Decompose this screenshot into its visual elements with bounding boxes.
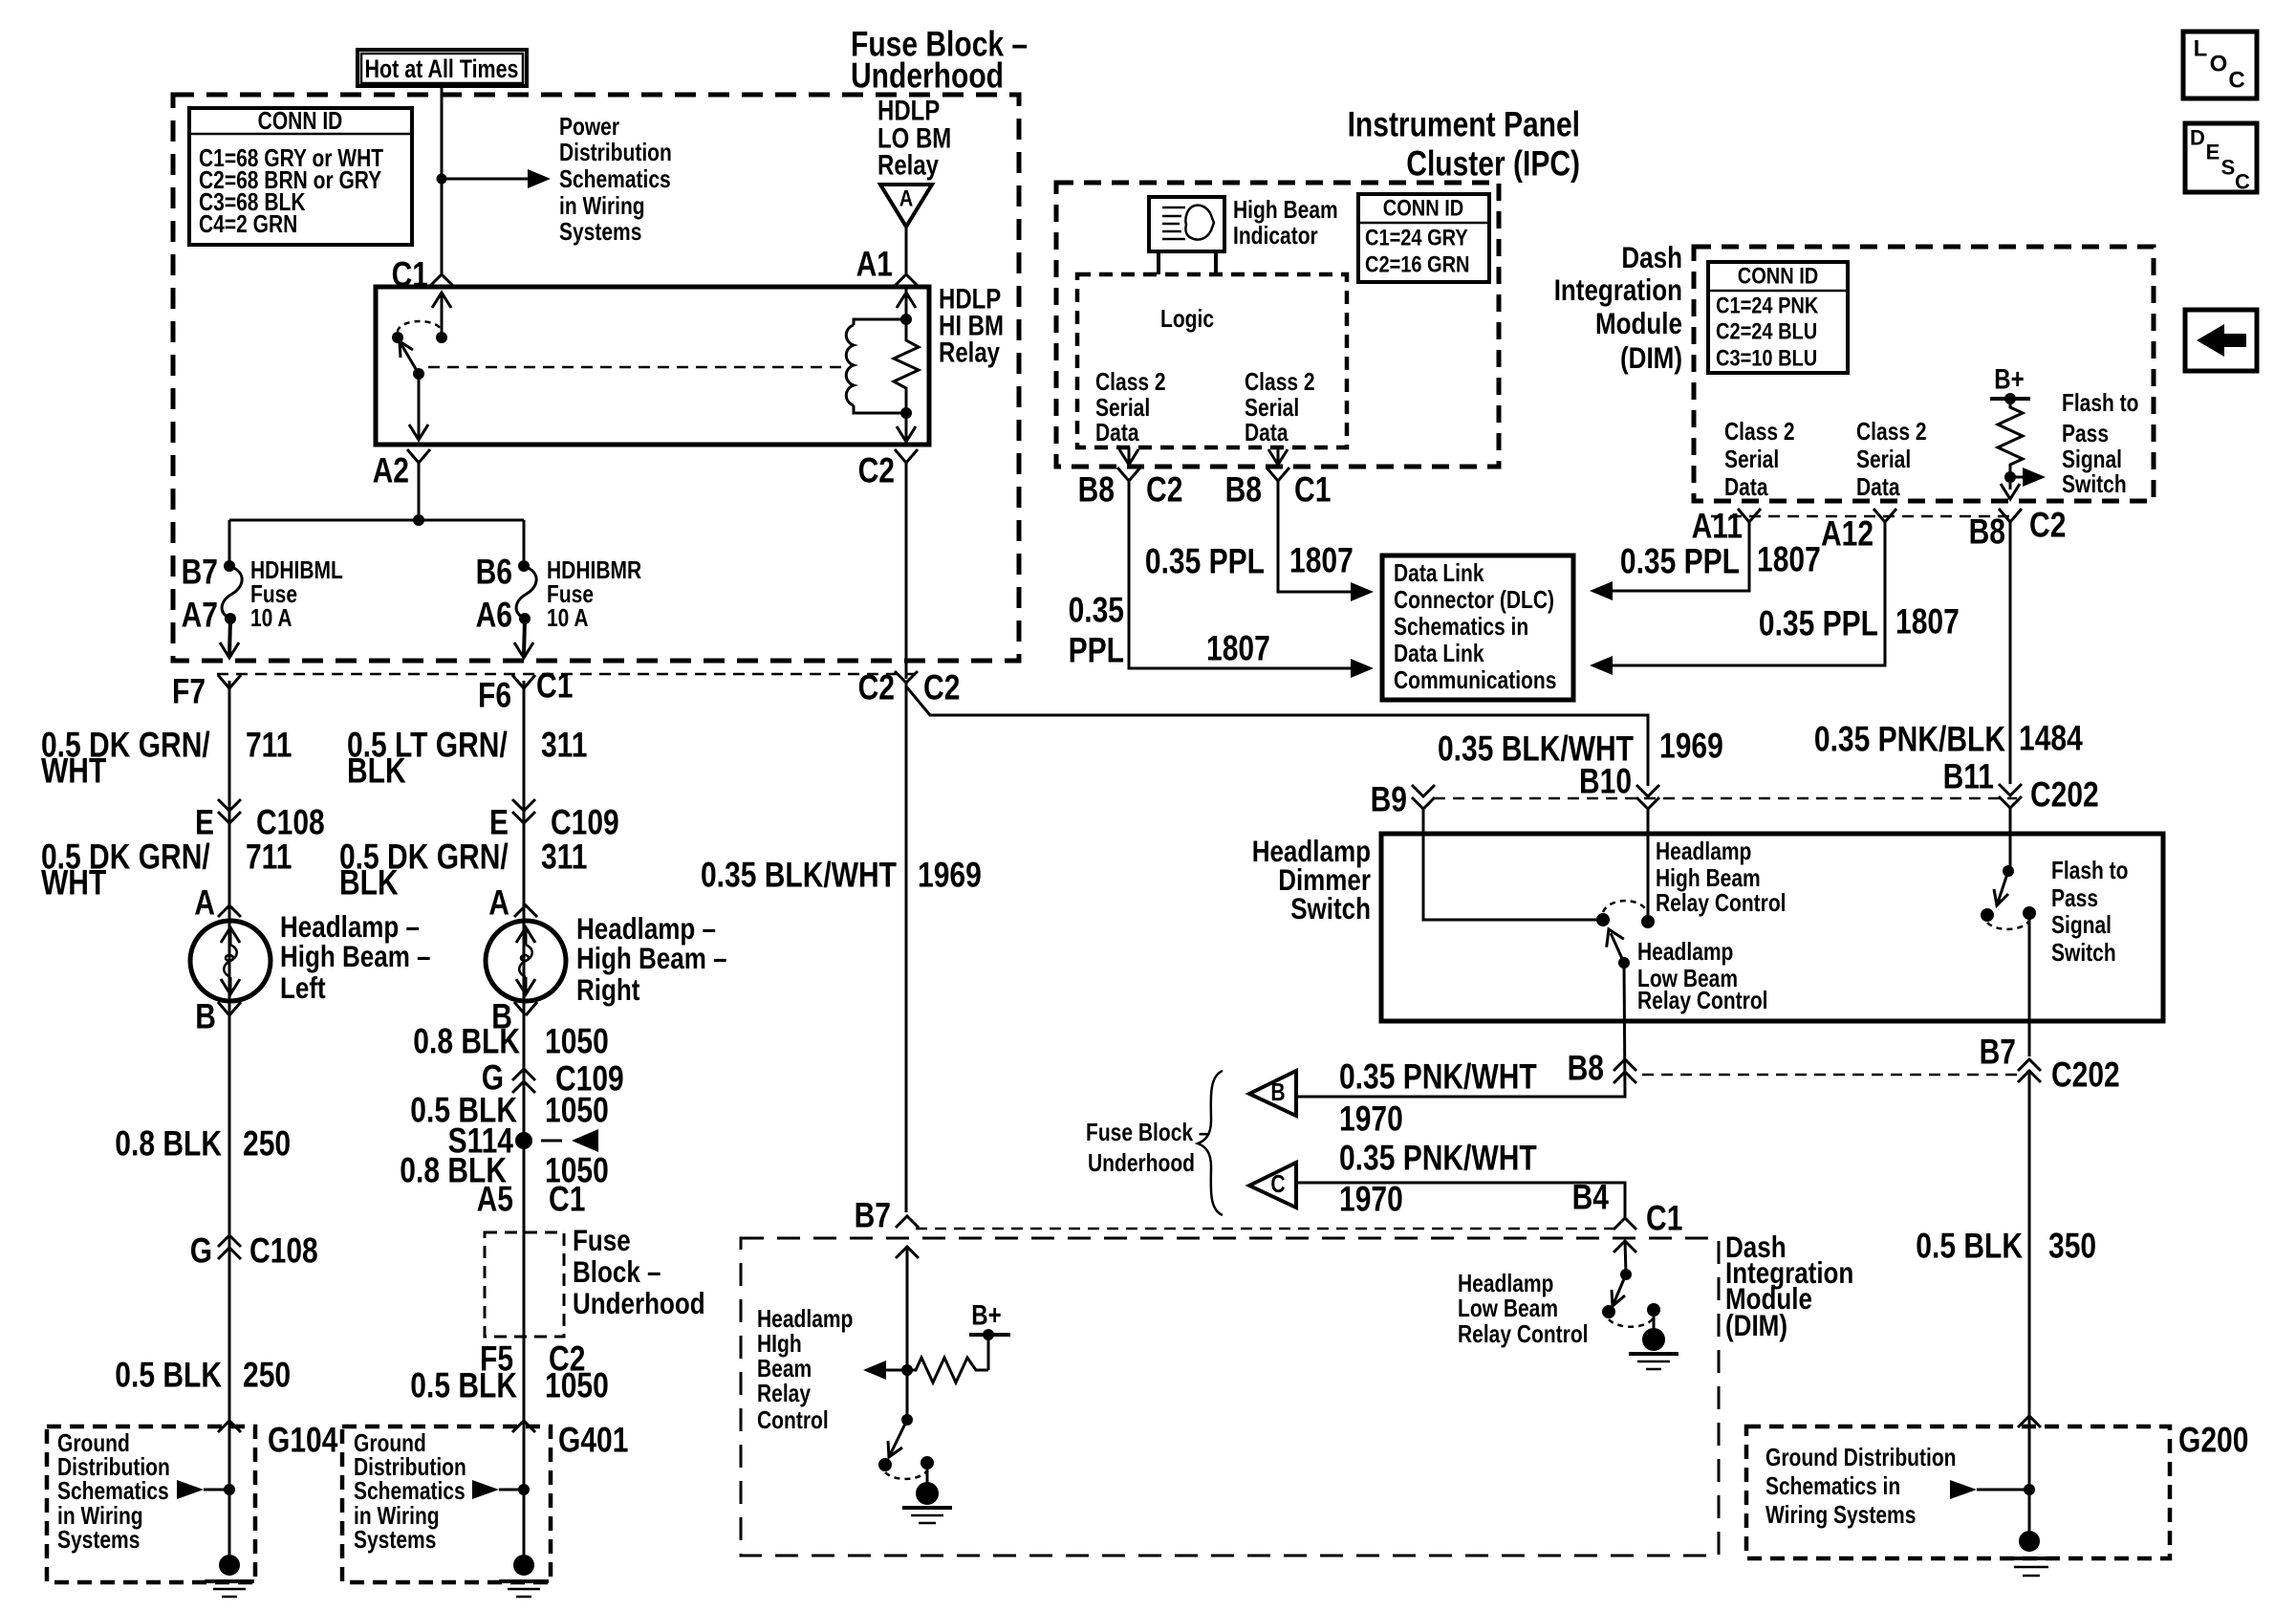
label 0.8 BLK 1050 (below splice): [400, 1151, 609, 1190]
svg-text:0.35 PNK/WHT: 0.35 PNK/WHT: [1339, 1139, 1537, 1178]
svg-text:HDHIBMR: HDHIBMR: [547, 557, 641, 584]
connector G C108: [190, 1231, 318, 1271]
svg-text:High Beam: High Beam: [1233, 197, 1338, 224]
wire A11 to DLC: [1590, 522, 1749, 600]
label Headlamp High Beam Right: [576, 911, 727, 1007]
svg-text:A: A: [488, 883, 509, 923]
svg-text:1807: 1807: [1895, 602, 1960, 642]
svg-text:B: B: [1270, 1079, 1285, 1106]
pin A1 connector: [856, 245, 918, 287]
svg-text:HIgh: HIgh: [757, 1331, 802, 1358]
svg-text:C: C: [2228, 68, 2244, 94]
svg-text:Schematics: Schematics: [559, 166, 671, 193]
svg-text:Flash to: Flash to: [2051, 858, 2129, 884]
lamp Headlamp High Beam Left: [190, 921, 271, 1001]
svg-text:Logic: Logic: [1160, 306, 1214, 333]
label 0.5 BLK 350: [1916, 1227, 2096, 1266]
svg-text:Underhood: Underhood: [1088, 1150, 1195, 1177]
svg-text:B8: B8: [1078, 470, 1115, 510]
switch dimmer blade: [1600, 925, 1630, 969]
wire logic out left with arrow: [1119, 447, 1138, 465]
svg-text:B4: B4: [1572, 1178, 1610, 1217]
svg-text:PPL: PPL: [1069, 631, 1124, 670]
label 0.5 BLK 1050: [410, 1091, 609, 1130]
wire B7 C202 down right column: [2028, 1070, 2031, 1531]
svg-text:G104: G104: [268, 1421, 338, 1460]
svg-text:B8: B8: [1225, 470, 1262, 510]
label 0.8 BLK 1050: [413, 1022, 609, 1061]
svg-text:Serial: Serial: [1724, 446, 1779, 473]
svg-text:0.35 PNK/WHT: 0.35 PNK/WHT: [1339, 1057, 1537, 1097]
table CONN ID (fuse block): [189, 108, 412, 245]
label 0.35 PNK/WHT 1970 (C): [1339, 1139, 1537, 1219]
pin F5 C2: [480, 1339, 585, 1379]
pin B8 C1 connector (IPC right): [1225, 468, 1332, 510]
svg-text:C202: C202: [2051, 1056, 2120, 1095]
pin B (right lamp): [491, 997, 537, 1036]
svg-text:Relay Control: Relay Control: [1637, 988, 1768, 1014]
svg-text:0.5 BLK: 0.5 BLK: [410, 1366, 517, 1405]
relay triangle A: [880, 185, 932, 227]
svg-text:B8: B8: [1568, 1049, 1604, 1088]
pin A12 connector: [1821, 509, 1896, 554]
wire triangle to A1: [905, 227, 908, 273]
svg-text:C2: C2: [858, 451, 895, 490]
label Dash Integration Module (DIM): [1554, 240, 1682, 375]
label 0.35 PPL 1807 (A11): [1620, 540, 1821, 581]
box LOC: [2183, 32, 2257, 98]
dashed relay actuation line: [428, 366, 842, 369]
svg-text:F7: F7: [172, 672, 206, 711]
svg-text:Power: Power: [559, 114, 619, 141]
label Fuse Block - Underhood title: [851, 25, 1028, 96]
svg-text:Schematics: Schematics: [57, 1478, 169, 1505]
svg-text:C2: C2: [2029, 506, 2066, 545]
wire blade to A2: [409, 374, 428, 440]
svg-text:1969: 1969: [1659, 727, 1723, 766]
switch low beam control: [1602, 1269, 1660, 1327]
label 0.35 PNK/BLK 1484: [1814, 719, 2083, 759]
fuse HDHIBMR: [516, 560, 536, 624]
svg-text:Relay: Relay: [939, 337, 1001, 369]
svg-text:Distribution: Distribution: [354, 1454, 466, 1481]
svg-text:S: S: [2221, 156, 2236, 180]
wire dimmer pivot down to B8 and triangle B: [1296, 963, 1625, 1097]
connector into G401: [512, 1421, 535, 1432]
svg-text:1970: 1970: [1339, 1180, 1403, 1219]
label Ground Distribution Schematics in Wiring Systems (G104): [57, 1430, 170, 1554]
svg-text:Ground: Ground: [57, 1430, 130, 1457]
label HDLP HI BM Relay: [939, 284, 1004, 369]
box Data Link Connector DLC: [1382, 555, 1573, 700]
svg-text:in Wiring: in Wiring: [57, 1503, 143, 1530]
svg-text:D: D: [2190, 126, 2205, 150]
switch flash to pass: [1981, 865, 2036, 929]
label HDHIBML Fuse 10 A: [250, 557, 343, 632]
svg-text:B+: B+: [1994, 364, 2024, 396]
box Hot at All Times: [357, 50, 527, 86]
svg-text:1807: 1807: [1289, 541, 1354, 580]
svg-text:C1=24 GRY: C1=24 GRY: [1365, 226, 1468, 251]
svg-text:1807: 1807: [1206, 629, 1270, 668]
svg-text:Serial: Serial: [1856, 446, 1911, 473]
svg-text:A2: A2: [373, 451, 409, 490]
svg-text:A12: A12: [1821, 514, 1874, 554]
svg-text:311: 311: [541, 838, 587, 877]
svg-text:O: O: [2210, 52, 2228, 77]
svg-text:0.35 PPL: 0.35 PPL: [1759, 604, 1878, 643]
svg-text:Data: Data: [1245, 420, 1289, 446]
pin A (left lamp): [194, 883, 241, 923]
junction dot: [901, 1364, 913, 1376]
relay box HDLP HI BM Relay: [376, 287, 929, 445]
svg-text:Right: Right: [576, 972, 640, 1007]
label Headlamp Dimmer Switch: [1252, 834, 1371, 925]
svg-text:A6: A6: [476, 596, 512, 635]
svg-text:Control: Control: [757, 1407, 829, 1434]
svg-text:Fuse: Fuse: [547, 581, 594, 608]
pin B8 C2 connector (DIM): [1969, 506, 2067, 552]
dashed connector line C1 (DIM bottom): [916, 1228, 1615, 1230]
svg-text:Wiring Systems: Wiring Systems: [1765, 1502, 1916, 1529]
svg-text:1050: 1050: [545, 1091, 609, 1130]
table CONN ID (IPC): [1358, 194, 1489, 282]
connector F7: [172, 672, 241, 711]
svg-text:250: 250: [243, 1124, 291, 1164]
svg-text:Systems: Systems: [559, 219, 641, 246]
pin A11 connector: [1692, 507, 1761, 546]
pin A2 connector: [373, 449, 430, 490]
dashed box DIM (bottom): [741, 1238, 1719, 1556]
wire arrow to Power Distribution: [442, 169, 551, 188]
pin C2 connector (relay out): [858, 449, 918, 490]
svg-text:B9: B9: [1371, 780, 1407, 819]
box DESC: [2185, 123, 2257, 194]
svg-text:C3=10 BLU: C3=10 BLU: [1716, 346, 1817, 372]
svg-text:B10: B10: [1579, 762, 1632, 801]
fuse HDHIBML: [222, 560, 242, 624]
svg-text:1484: 1484: [2019, 719, 2083, 758]
svg-text:10 A: 10 A: [547, 605, 589, 632]
relay coil: [846, 319, 906, 413]
dashed box Fuse Block Underhood (small): [485, 1232, 564, 1337]
connector B8 (dimmer out): [1568, 1049, 1636, 1088]
wire relay C2 down: [905, 463, 908, 679]
wire resistor to DIM edge: [2001, 477, 2020, 499]
box back arrow: [2185, 310, 2257, 371]
table CONN ID (DIM): [1708, 262, 1848, 373]
label Ground Distribution Schematics in Wiring Systems (G200): [1765, 1445, 1957, 1529]
svg-text:E: E: [489, 803, 509, 842]
splice S114: [448, 1121, 598, 1161]
connector E C108: [195, 799, 325, 842]
wire flash-to-pass contact down to B7: [2028, 913, 2031, 1056]
svg-text:High Beam –: High Beam –: [280, 939, 431, 973]
svg-text:in Wiring: in Wiring: [559, 193, 645, 220]
label 0.5 DK GRN/ WHT 711 (lower): [41, 838, 292, 903]
svg-text:Class 2: Class 2: [1856, 419, 1927, 446]
label 0.35 BLK/WHT 1969 (center wire): [701, 856, 982, 895]
svg-text:Schematics in: Schematics in: [1394, 614, 1528, 641]
svg-text:B11: B11: [1943, 757, 1994, 796]
ground (high beam control): [902, 1469, 952, 1523]
svg-text:Relay: Relay: [757, 1381, 812, 1407]
label Ground Distribution Schematics in Wiring Systems (G401): [354, 1430, 466, 1554]
svg-text:0.5 BLK: 0.5 BLK: [115, 1356, 222, 1395]
svg-text:C108: C108: [256, 803, 325, 842]
resistor high beam control: [907, 1358, 988, 1382]
connector B7 (center): [855, 1196, 919, 1235]
high beam indicator icon: [1149, 197, 1224, 274]
connector C2 C2 crossing: [858, 668, 961, 708]
svg-text:711: 711: [246, 726, 292, 765]
wire left branch to fuse B7: [228, 520, 231, 566]
svg-text:0.8 BLK: 0.8 BLK: [413, 1022, 520, 1061]
switch dimmer high/low contacts: [1596, 901, 1655, 928]
svg-text:Ground: Ground: [354, 1430, 426, 1457]
label Headlamp Low Beam Relay Control (DIM): [1458, 1271, 1589, 1348]
svg-text:(DIM): (DIM): [1725, 1308, 1787, 1342]
wire right headlamp column: [523, 681, 526, 1555]
dashed connector line below DIM: [1711, 515, 2017, 518]
label 0.5 BLK 1050 (bottom): [410, 1366, 609, 1405]
label 0.5 BLK 250: [115, 1356, 291, 1395]
label 0.35 PPL 1807 (A12): [1759, 602, 1960, 643]
label 0.5 DK GRN/ WHT 711 (upper): [41, 726, 292, 791]
arrow into DLC upper-left: [1351, 659, 1374, 678]
svg-text:Data Link: Data Link: [1394, 641, 1484, 667]
label Headlamp Low Beam Relay Control: [1637, 939, 1768, 1014]
svg-text:G401: G401: [558, 1421, 628, 1460]
dashed box G401: [342, 1426, 551, 1582]
wire logic out right with arrow: [1268, 447, 1288, 465]
svg-text:Relay Control: Relay Control: [1656, 890, 1787, 917]
switch relay blade: [400, 341, 424, 380]
svg-text:1970: 1970: [1339, 1099, 1403, 1139]
wire 1969 branch: [906, 686, 1648, 786]
svg-text:C1: C1: [1646, 1199, 1682, 1238]
arrow up at relay coil top: [897, 293, 916, 308]
wire IPC right 1807: [1278, 481, 1358, 592]
connector into G200: [2018, 1416, 2041, 1427]
dashed connector line C202 lower: [1642, 1074, 2017, 1077]
connector into G104: [218, 1421, 241, 1432]
svg-text:C: C: [1270, 1171, 1285, 1198]
svg-text:B7: B7: [182, 553, 218, 592]
svg-text:Headlamp: Headlamp: [1656, 838, 1751, 865]
wire B7 into DIM bottom: [896, 1246, 919, 1420]
label Instrument Panel Cluster (IPC): [1348, 105, 1580, 184]
svg-text:C2: C2: [923, 668, 960, 708]
label 0.35 PPL 1807 (IPC right): [1145, 541, 1354, 581]
svg-text:A11: A11: [1692, 507, 1743, 546]
ground G200: [2005, 1531, 2057, 1576]
svg-text:Dash: Dash: [1621, 240, 1682, 274]
svg-text:CONN ID: CONN ID: [1383, 196, 1464, 222]
svg-text:Hot at All Times: Hot at All Times: [365, 54, 519, 83]
label Flash to Pass Signal Switch (DIM): [2062, 390, 2139, 498]
connector F6 C1: [478, 666, 573, 715]
wire arrow to G401 wire: [472, 1480, 530, 1499]
label Class 2 Serial Data (IPC left): [1095, 369, 1166, 446]
svg-text:Switch: Switch: [2062, 471, 2127, 498]
wire arrow right flash-to-pass: [2010, 468, 2046, 487]
lamp Headlamp High Beam Right: [486, 921, 566, 1001]
svg-text:Module: Module: [1595, 306, 1682, 340]
svg-text:0.35 PPL: 0.35 PPL: [1620, 542, 1740, 581]
svg-text:C1: C1: [536, 666, 573, 706]
svg-text:B8: B8: [1969, 512, 2005, 552]
wire tee horizontal: [229, 519, 524, 522]
junction dot coil bottom: [900, 407, 912, 419]
junction dot resistor bottom: [2004, 471, 2016, 483]
svg-text:L: L: [2194, 36, 2208, 62]
svg-text:Integration: Integration: [1554, 272, 1682, 307]
svg-text:HDHIBML: HDHIBML: [250, 557, 343, 584]
wire B8 down to C202: [2009, 522, 2012, 784]
svg-text:Cluster (IPC): Cluster (IPC): [1406, 144, 1580, 184]
label Fuse Block - Underhood (mid): [1086, 1120, 1210, 1177]
node B+ (DIM): [1990, 364, 2030, 405]
svg-text:B7: B7: [855, 1196, 891, 1235]
label Class 2 Serial Data (IPC right): [1245, 369, 1315, 446]
wire B4 into DIM bottom: [1614, 1240, 1636, 1274]
svg-text:Data: Data: [1095, 420, 1139, 446]
label Dash Integration Module (DIM) bottom: [1725, 1230, 1853, 1342]
wire fuse to box edge: [514, 619, 533, 658]
svg-text:Flash to: Flash to: [2062, 390, 2139, 417]
svg-text:A7: A7: [182, 596, 218, 635]
svg-text:High Beam: High Beam: [1656, 865, 1761, 892]
svg-text:WHT: WHT: [41, 863, 106, 903]
connector B11 C202: [1943, 757, 2099, 815]
svg-text:1050: 1050: [545, 1366, 609, 1405]
svg-text:Switch: Switch: [1290, 891, 1371, 925]
label 0.5 DK GRN/ BLK 311 (lower): [339, 838, 587, 903]
svg-text:0.8 BLK: 0.8 BLK: [115, 1124, 222, 1164]
wire B11 into dimmer switch: [2009, 808, 2012, 871]
ground G401: [499, 1555, 549, 1597]
svg-text:Underhood: Underhood: [573, 1286, 705, 1320]
svg-text:1050: 1050: [545, 1022, 609, 1061]
dashed connector line C202: [1434, 797, 2017, 800]
svg-text:0.35 PPL: 0.35 PPL: [1145, 542, 1265, 581]
svg-text:G: G: [190, 1231, 212, 1271]
wire IPC left 1807: [1129, 481, 1358, 668]
svg-text:Schematics in: Schematics in: [1765, 1473, 1900, 1500]
svg-text:Low Beam: Low Beam: [1458, 1295, 1558, 1322]
svg-text:Class 2: Class 2: [1724, 419, 1795, 446]
brace fuse block outputs: [1198, 1071, 1223, 1215]
svg-text:Schematics: Schematics: [354, 1478, 466, 1505]
svg-text:0.35 PNK/BLK: 0.35 PNK/BLK: [1814, 720, 2006, 759]
junction dot coil top: [900, 314, 912, 325]
connector B4 C1: [1572, 1178, 1683, 1238]
svg-text:Class 2: Class 2: [1245, 369, 1315, 396]
svg-text:Fuse Block –: Fuse Block –: [1086, 1120, 1210, 1146]
arrow up into relay: [432, 293, 451, 337]
svg-text:CONN ID: CONN ID: [258, 108, 343, 135]
svg-text:A: A: [899, 186, 914, 212]
connector E C109: [489, 799, 619, 842]
svg-text:C202: C202: [2030, 775, 2099, 815]
label Fuse Block Underhood (small): [573, 1223, 705, 1320]
svg-text:High Beam –: High Beam –: [576, 941, 727, 975]
label Class 2 Serial Data (DIM right): [1856, 419, 1927, 501]
svg-text:WHT: WHT: [41, 751, 106, 791]
wire arrow left (relay control out): [863, 1361, 907, 1380]
svg-text:Headlamp: Headlamp: [757, 1306, 853, 1333]
svg-text:Headlamp: Headlamp: [1458, 1271, 1553, 1297]
triangle B (fuse block out): [1249, 1071, 1296, 1116]
svg-text:Beam: Beam: [757, 1356, 812, 1382]
pin A5 C1: [477, 1180, 586, 1219]
wire center down to B7: [905, 682, 908, 1212]
svg-text:711: 711: [246, 838, 292, 877]
connector G C109: [482, 1058, 624, 1099]
svg-text:Distribution: Distribution: [57, 1454, 170, 1481]
wire coil bottom to box edge: [897, 413, 916, 442]
svg-text:Left: Left: [280, 970, 326, 1005]
wire arrow to G200 wire: [1950, 1480, 2035, 1499]
pin C1 connector: [392, 255, 453, 294]
pin B (left lamp): [195, 997, 241, 1036]
dashed box G200: [1746, 1426, 2170, 1558]
svg-text:10 A: 10 A: [250, 605, 292, 632]
pin A (right lamp): [488, 883, 537, 923]
svg-text:Data: Data: [1856, 474, 1900, 501]
svg-text:C109: C109: [551, 803, 619, 842]
label 0.35 PPL 1807 (stacked): [1069, 591, 1270, 670]
svg-text:350: 350: [2048, 1227, 2096, 1266]
label Flash to Pass Signal Switch (dimmer): [2051, 858, 2129, 967]
svg-text:Relay: Relay: [877, 150, 940, 182]
svg-text:Data Link: Data Link: [1394, 560, 1484, 587]
resistor flash-to-pass pull-up: [1998, 399, 2023, 477]
svg-text:C2=16 GRN: C2=16 GRN: [1365, 252, 1470, 278]
svg-text:C4=2 GRN: C4=2 GRN: [199, 211, 297, 238]
pin B8 C2 connector (IPC left): [1078, 468, 1183, 510]
svg-text:Indicator: Indicator: [1233, 223, 1318, 250]
svg-text:C: C: [2235, 170, 2250, 194]
svg-text:250: 250: [243, 1356, 291, 1395]
svg-text:Relay Control: Relay Control: [1458, 1321, 1589, 1348]
svg-text:E: E: [2206, 141, 2220, 164]
label Headlamp HIgh Beam Relay Control: [757, 1306, 853, 1434]
svg-text:1807: 1807: [1757, 540, 1821, 579]
label 0.5 LT GRN/ BLK 311 (upper): [347, 726, 587, 791]
svg-text:Connector (DLC): Connector (DLC): [1394, 587, 1554, 614]
connector B9: [1371, 780, 1435, 819]
label B7 A7: [182, 553, 218, 635]
svg-text:Ground Distribution: Ground Distribution: [1765, 1445, 1957, 1471]
label 0.35 PNK/WHT 1970 (B): [1339, 1057, 1537, 1139]
switch high beam control: [878, 1414, 934, 1479]
dashed box IPC: [1056, 183, 1499, 467]
svg-text:0.35 BLK/WHT: 0.35 BLK/WHT: [701, 856, 897, 895]
svg-text:Pass: Pass: [2051, 885, 2098, 912]
ground (low beam control): [1629, 1317, 1679, 1369]
junction dot: [437, 174, 447, 185]
label 0.8 BLK 250: [115, 1124, 291, 1164]
svg-text:(DIM): (DIM): [1620, 340, 1682, 375]
svg-text:C1: C1: [549, 1180, 585, 1219]
label Power Distribution Schematics in Wiring Systems: [559, 114, 672, 246]
svg-text:C1=24 PNK: C1=24 PNK: [1716, 294, 1819, 319]
svg-text:0.5 BLK: 0.5 BLK: [1916, 1227, 2023, 1266]
svg-text:Instrument Panel: Instrument Panel: [1348, 105, 1580, 144]
label HDHIBMR Fuse 10 A: [547, 557, 641, 632]
